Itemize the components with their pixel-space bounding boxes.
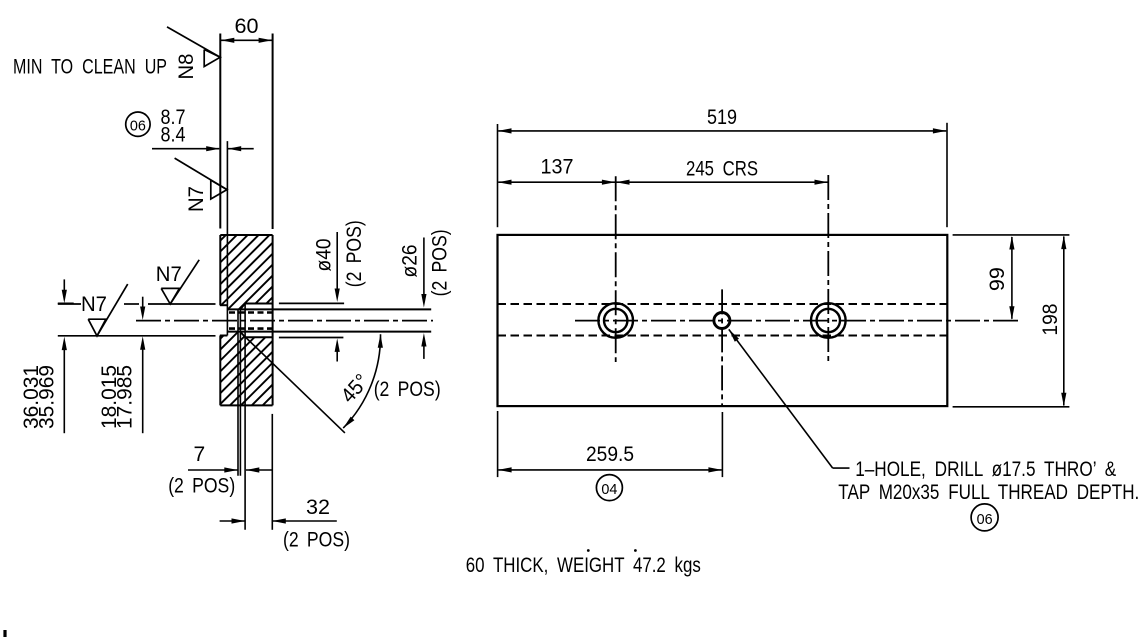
top extension line right side [953, 234, 1070, 236]
hole 2 counterbore circle [811, 303, 846, 338]
pocket top edge inside [245, 303, 273, 305]
svg-text:60: 60 [235, 15, 259, 38]
hole 3 centre line vertical [721, 289, 723, 406]
svg-text:245 CRS: 245 CRS [686, 157, 758, 180]
svg-text:17.985: 17.985 [114, 365, 137, 429]
dimension 198 [1063, 237, 1065, 406]
svg-text:1–HOLE, DRILL ø17.5 THRO’ &: 1–HOLE, DRILL ø17.5 THRO’ & [855, 458, 1116, 481]
pocket bottom edge inside [245, 336, 273, 338]
dimension 245 CRS [616, 181, 828, 183]
dimension 137 [498, 181, 615, 183]
svg-text:ø26: ø26 [399, 245, 422, 278]
left view: right face line [272, 34, 274, 230]
dimension diameter 40 [336, 232, 338, 291]
centre line of bore (left view) [136, 320, 433, 322]
plate centre line [575, 320, 1019, 322]
chamfer lower [240, 332, 245, 338]
svg-text:MIN TO CLEAN UP: MIN TO CLEAN UP [13, 56, 167, 79]
upper surface finish symbol N7 [161, 288, 179, 304]
bottom extension line right side [953, 406, 1070, 408]
svg-text:(2 POS): (2 POS) [283, 529, 350, 552]
dimension 99 [1011, 237, 1013, 319]
svg-text:(2 POS): (2 POS) [429, 229, 452, 296]
hole 1 counterbore circle [598, 303, 633, 338]
dimension 7 (2 POS) [188, 469, 238, 471]
pocket bottom face line / extension for 32 dim [244, 304, 246, 530]
hole 2 bore circle [817, 309, 840, 332]
svg-text:04: 04 [601, 481, 617, 498]
svg-text:N7: N7 [185, 186, 208, 212]
hole 1 centre line vertical [615, 176, 617, 362]
balloon 06 under note [971, 504, 998, 531]
hole 1 bore circle [604, 309, 627, 332]
leader line to note [729, 329, 833, 468]
thread dashed lower [229, 327, 273, 330]
svg-text:N7: N7 [81, 293, 107, 316]
svg-text:(2 POS): (2 POS) [343, 220, 366, 287]
dimension 60 across faces [221, 39, 272, 41]
svg-text:99: 99 [986, 267, 1009, 291]
lower notch line [58, 335, 216, 337]
chamfer vertex line / extension [239, 309, 241, 475]
hole 2 centre line vertical [827, 175, 829, 362]
dimension 18.015/17.985 [142, 297, 144, 309]
dimension 32 (2 POS) [220, 520, 245, 522]
balloon 04 [596, 475, 622, 501]
chamfer upper [240, 304, 245, 310]
45 degree dimension arc [343, 334, 380, 428]
svg-text:06: 06 [130, 118, 146, 135]
recess bottom edge [220, 335, 228, 337]
left surface finish symbol N7 [88, 319, 106, 336]
dimension diameter 26 [423, 238, 425, 297]
surface finish symbol N8 [167, 27, 220, 57]
plate outline [498, 235, 948, 406]
surface finish symbol N7 on recess face [175, 158, 227, 190]
right face extension below for 32 dim [271, 414, 273, 530]
svg-text:ø40: ø40 [313, 239, 336, 272]
balloon 06 (left) [126, 112, 150, 136]
thread dashed upper [229, 311, 273, 314]
pocket upper extension stub right [279, 302, 344, 304]
svg-text:137: 137 [541, 156, 574, 179]
svg-text:(2 POS): (2 POS) [374, 378, 441, 401]
svg-text:519: 519 [707, 106, 737, 129]
drill face line / extension for 7 dim [237, 309, 239, 475]
left view: left face line [219, 34, 221, 229]
dimension 36.031/35.969 [63, 279, 65, 291]
hidden slot line upper [498, 303, 948, 305]
upper notch line (bore extension left) [58, 303, 81, 305]
svg-text:7: 7 [193, 443, 205, 466]
45 degree chamfer leader line [241, 333, 345, 433]
svg-text:(2 POS): (2 POS) [168, 475, 235, 498]
hidden slot line lower [498, 334, 948, 336]
svg-text:198: 198 [1039, 304, 1062, 336]
svg-text:259.5: 259.5 [586, 443, 634, 466]
recess top edge [220, 304, 228, 306]
recess face extension line [226, 141, 228, 335]
sheet border tick bottom-left [3, 630, 6, 637]
svg-text:32: 32 [306, 496, 330, 519]
dimension 259.5 [497, 411, 499, 477]
svg-text:8.4: 8.4 [161, 123, 186, 146]
svg-text:06: 06 [977, 511, 993, 528]
svg-text:N8: N8 [175, 54, 198, 80]
dimension 519 [497, 124, 499, 227]
bore upper line [227, 308, 431, 310]
tapped hole 3 circle [714, 313, 730, 329]
pocket lower extension stub right [279, 337, 344, 339]
svg-text:35.969: 35.969 [36, 365, 59, 429]
stray dot over T [587, 549, 590, 552]
svg-text:N7: N7 [156, 263, 182, 286]
svg-text:TAP M20x35 FULL THREAD DEPTH.: TAP M20x35 FULL THREAD DEPTH. [838, 481, 1139, 504]
svg-text:60 THICK, WEIGHT 47.2 kgs: 60 THICK, WEIGHT 47.2 kgs [466, 554, 701, 577]
right face line through section [272, 235, 274, 405]
bore lower line [227, 331, 431, 333]
stray dot over 4 [634, 549, 637, 552]
